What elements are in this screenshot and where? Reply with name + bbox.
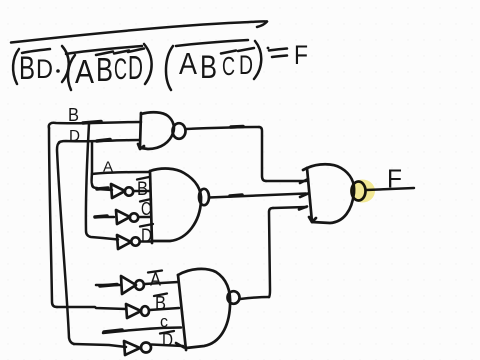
label Cbar at gate2 bbox=[140, 199, 151, 202]
yellow highlight on U4 bubble bbox=[350, 180, 375, 203]
wire D input line bbox=[59, 140, 140, 143]
svg-text:A: A bbox=[75, 53, 94, 90]
wire inverter D to gate3 bbox=[152, 345, 184, 347]
wire U1 output bbox=[186, 127, 259, 129]
wire inverter A to gate3 bbox=[145, 282, 179, 284]
label Bbar at gate2 bbox=[137, 177, 149, 180]
overline BD group1 bbox=[22, 49, 50, 53]
svg-text:B: B bbox=[200, 49, 217, 85]
right paren group2 bbox=[144, 44, 152, 84]
nand gate U2 bubble bbox=[199, 189, 209, 205]
wire c input line gate3 bbox=[103, 328, 181, 334]
svg-text:A: A bbox=[103, 159, 113, 176]
svg-text:D: D bbox=[162, 330, 173, 350]
svg-text:D: D bbox=[128, 49, 143, 86]
left paren group2 bbox=[68, 55, 75, 90]
nand gate U1 bubble bbox=[173, 123, 186, 139]
wire vertical from B line to gate2 D inverter bbox=[86, 124, 118, 240]
inverter gate3 D bubble bbox=[141, 343, 151, 353]
nand gate U1 body bbox=[140, 113, 141, 146]
wire to gate3 B inverter bbox=[57, 307, 126, 309]
tick on B line bbox=[83, 122, 101, 124]
wire stub into gate3 A inverter bbox=[96, 284, 120, 287]
wire left vertical from B down bbox=[49, 128, 57, 307]
wire A input line bbox=[92, 172, 149, 174]
tick on U1 output wire bbox=[231, 125, 243, 129]
svg-text:D: D bbox=[141, 226, 152, 247]
nand gate U3 bubble bbox=[228, 291, 240, 304]
right paren group1 bbox=[62, 46, 69, 82]
inverter gate2 B bubble bbox=[125, 187, 133, 195]
label Abar at gate3 bbox=[148, 271, 162, 273]
inverter gate3 A bubble bbox=[135, 280, 144, 290]
bar over B group2 bbox=[96, 52, 113, 56]
tick stub gate2 C inverter input bbox=[95, 216, 107, 217]
thick overlap ticks bbox=[83, 122, 308, 348]
svg-text:A: A bbox=[179, 46, 197, 81]
inverter gate2 D triangle bbox=[117, 235, 131, 249]
overline group2 bbox=[66, 46, 142, 54]
nand gate U4 bubble bbox=[352, 182, 366, 201]
nand gate U3 body bbox=[178, 275, 186, 350]
wire stub into gate2 B inverter bbox=[97, 189, 112, 190]
left paren group1 bbox=[13, 49, 19, 84]
inverter gate3 B bubble bbox=[141, 306, 149, 316]
svg-text:F: F bbox=[294, 40, 308, 70]
wire inverter C to gate2 bbox=[139, 216, 151, 219]
inverter gate2 B triangle bbox=[111, 184, 125, 198]
bar over D group2 bbox=[128, 49, 144, 53]
bar over D group3 bbox=[238, 48, 254, 51]
wire F output bbox=[366, 188, 414, 190]
wire vertical from D line to gate2 B inverter bbox=[92, 142, 97, 188]
label Dbar at gate2 bbox=[140, 224, 153, 227]
svg-text:D: D bbox=[69, 128, 80, 145]
svg-text:C: C bbox=[141, 199, 151, 219]
svg-text:B: B bbox=[19, 50, 35, 86]
tick on c line bbox=[104, 330, 122, 332]
wire U3 output riser bbox=[240, 297, 269, 299]
small dot after group3 bbox=[267, 47, 270, 50]
inverter gate3 A triangle bbox=[121, 276, 136, 294]
tick on U2 output wire bbox=[230, 195, 242, 196]
label Dbar at gate3 bbox=[160, 331, 174, 334]
right paren group3 bbox=[254, 41, 261, 79]
tick stub gate2 B inverter input bbox=[97, 188, 108, 189]
overline group3 bbox=[176, 40, 248, 46]
wire inverter D to gate2 bbox=[140, 240, 152, 243]
multiplication dot group1 bbox=[56, 69, 60, 73]
wire U2 output bbox=[209, 194, 306, 198]
svg-text:B: B bbox=[96, 51, 113, 88]
arrow into U4 input1 bbox=[300, 179, 308, 183]
svg-text:c: c bbox=[160, 312, 168, 331]
inverter gate2 C bubble bbox=[130, 213, 138, 221]
tick stub gate3 A inverter input bbox=[100, 285, 117, 287]
bar over C group3 bbox=[221, 51, 236, 54]
svg-text:B: B bbox=[68, 105, 79, 125]
svg-text:A: A bbox=[150, 270, 161, 290]
wire to gate3 D inverter bbox=[74, 344, 126, 347]
nand gate U4 final body bbox=[307, 168, 312, 222]
svg-text:B: B bbox=[137, 179, 148, 200]
overall overline of expression bbox=[11, 21, 267, 42]
inverter gate3 D triangle bbox=[124, 341, 140, 355]
svg-text:F: F bbox=[387, 164, 402, 194]
arrow into U4 input3 bbox=[299, 207, 307, 210]
left paren group3 bbox=[166, 46, 173, 90]
wire inverter B to gate3 bbox=[150, 308, 180, 310]
svg-text:C: C bbox=[222, 51, 235, 81]
equals sign bbox=[269, 49, 287, 51]
arrow into U4 input2 bbox=[300, 194, 308, 198]
nand gate U2 body bbox=[150, 171, 152, 243]
inverter gate2 D bubble bbox=[131, 237, 139, 245]
inverter gate3 B triangle bbox=[126, 304, 141, 318]
wire left vertical from D down bbox=[57, 143, 74, 344]
wire inverter B to gate2 bbox=[134, 190, 151, 193]
svg-text:D: D bbox=[239, 50, 253, 80]
inverter gate2 C triangle bbox=[116, 210, 130, 224]
arrow into U3 D input bbox=[176, 343, 184, 348]
wire B input line bbox=[49, 122, 141, 128]
arrow tick on D line bbox=[97, 140, 110, 142]
label Bbar at gate3 bbox=[154, 294, 167, 297]
svg-text:D: D bbox=[36, 54, 53, 84]
bar over C group2 bbox=[114, 51, 129, 54]
wire stub into gate2 C inverter bbox=[95, 216, 114, 219]
svg-text:C: C bbox=[114, 53, 127, 86]
